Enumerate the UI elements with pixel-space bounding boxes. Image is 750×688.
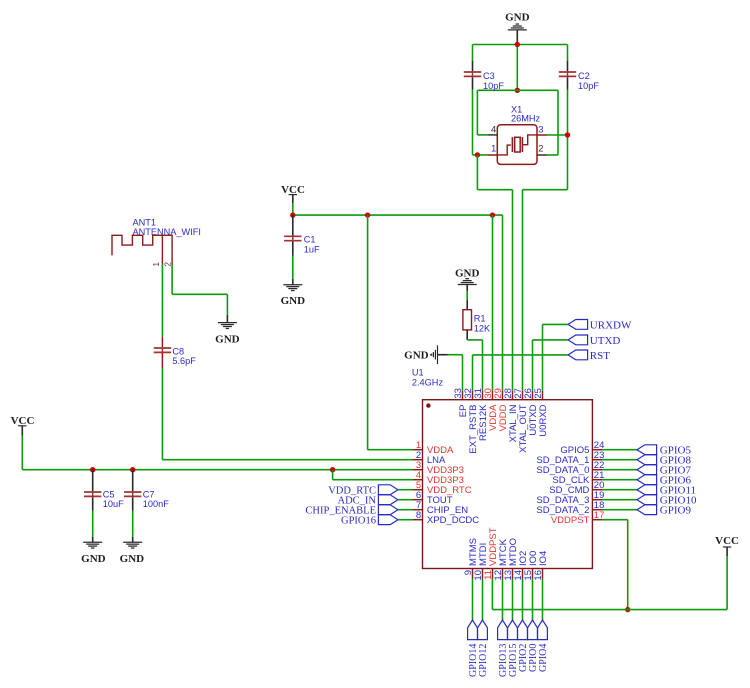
svg-text:IO4: IO4	[538, 551, 549, 566]
svg-text:GND: GND	[281, 295, 306, 307]
svg-text:4: 4	[491, 125, 496, 136]
svg-text:URXDW: URXDW	[590, 319, 632, 331]
svg-text:C1: C1	[304, 235, 316, 245]
svg-text:VCC: VCC	[11, 415, 35, 427]
svg-text:25: 25	[533, 388, 544, 399]
svg-text:3: 3	[538, 125, 543, 136]
svg-text:5.6pF: 5.6pF	[172, 356, 196, 366]
svg-text:10pF: 10pF	[578, 81, 599, 91]
svg-text:XPD_DCDC: XPD_DCDC	[427, 515, 479, 526]
svg-text:GND: GND	[455, 268, 480, 280]
svg-text:8: 8	[416, 510, 421, 521]
svg-text:GPIO16: GPIO16	[341, 515, 376, 526]
svg-text:C5: C5	[103, 489, 115, 499]
svg-text:1: 1	[491, 144, 496, 155]
svg-text:1: 1	[151, 262, 161, 267]
svg-text:UTXD: UTXD	[590, 335, 621, 347]
svg-text:U1: U1	[412, 368, 424, 378]
svg-text:GPIO12: GPIO12	[478, 644, 489, 677]
svg-text:26MHz: 26MHz	[511, 114, 541, 124]
svg-text:GPIO9: GPIO9	[660, 505, 692, 517]
svg-text:2.4GHz: 2.4GHz	[412, 378, 444, 388]
svg-text:10pF: 10pF	[483, 81, 504, 91]
svg-text:C2: C2	[578, 71, 590, 81]
svg-text:GND: GND	[404, 350, 429, 362]
svg-text:10uF: 10uF	[103, 499, 124, 509]
svg-text:GND: GND	[81, 553, 106, 565]
svg-text:VCC: VCC	[715, 535, 739, 547]
svg-text:12K: 12K	[474, 323, 491, 333]
svg-text:1uF: 1uF	[304, 244, 320, 254]
svg-text:2: 2	[538, 144, 543, 155]
svg-text:ANT1: ANT1	[133, 217, 157, 227]
svg-text:GND: GND	[215, 334, 240, 346]
svg-text:VDDPST: VDDPST	[551, 515, 590, 526]
svg-text:C7: C7	[143, 489, 155, 499]
svg-text:GND: GND	[120, 553, 145, 565]
svg-text:100nF: 100nF	[143, 499, 169, 509]
svg-text:RST: RST	[590, 350, 610, 362]
svg-text:GPIO4: GPIO4	[538, 644, 549, 672]
svg-text:C8: C8	[172, 346, 184, 356]
svg-text:U0RXD: U0RXD	[538, 404, 549, 436]
svg-text:C3: C3	[483, 71, 495, 81]
svg-text:GND: GND	[505, 11, 530, 23]
svg-text:2: 2	[162, 262, 172, 267]
svg-text:R1: R1	[474, 313, 486, 323]
